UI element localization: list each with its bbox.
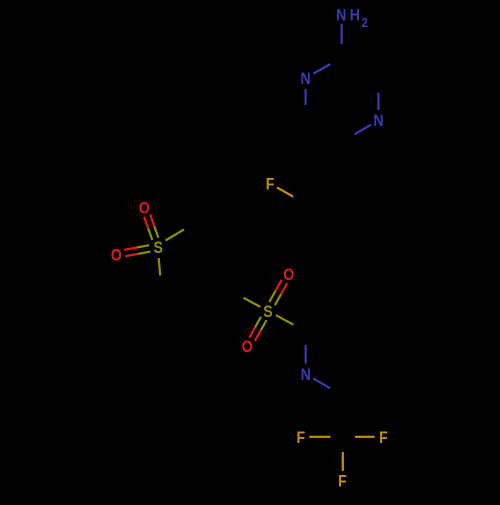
svg-text:F: F — [266, 176, 275, 194]
svg-text:N: N — [301, 366, 311, 384]
bond S1 down to methyl (olive half) — [159, 258, 161, 276]
bond CH2-N3 (blue half) — [305, 345, 307, 364]
svg-text:N: N — [373, 112, 383, 130]
svg-text:N: N — [336, 7, 346, 25]
svg-text:F: F — [379, 429, 388, 447]
svg-text:F: F — [338, 473, 347, 491]
bond C-F left (gold half) — [309, 436, 330, 438]
svg-text:H: H — [350, 7, 360, 25]
bond F-phenyl (gold half) — [277, 187, 293, 196]
svg-text:S: S — [263, 303, 272, 321]
svg-text:O: O — [139, 200, 150, 218]
S2=O lower double bond line left — [249, 317, 261, 338]
S2=O upper double bond line right — [275, 283, 287, 305]
bond C2-N1 (blue half) — [313, 64, 330, 74]
bond N4-C5 (blue half) — [355, 125, 372, 135]
bond C3-N4 (blue half) — [377, 93, 379, 111]
S2=O lower double bond line right — [255, 320, 267, 341]
S1=O top double bond line right — [150, 215, 158, 238]
S1=O left double bond lower line — [125, 252, 150, 257]
bond N3-C (blue half) — [313, 378, 330, 388]
bond S1 up-right to chain (olive half) — [166, 229, 185, 240]
amine NH2 label — [336, 7, 368, 31]
svg-text:O: O — [242, 338, 253, 356]
svg-text:2: 2 — [362, 17, 368, 31]
svg-text:O: O — [283, 266, 294, 284]
svg-text:O: O — [111, 247, 122, 265]
S1=O left double bond upper line — [124, 245, 149, 250]
svg-text:N: N — [301, 70, 311, 88]
S1=O top double bond line left — [144, 217, 152, 240]
svg-text:S: S — [154, 239, 163, 257]
bond N1-C6 (blue half) — [305, 89, 307, 105]
bond S2 up-left to chain (olive half) — [244, 298, 261, 307]
S2=O upper double bond line left — [269, 280, 281, 302]
bond NH2 to C2 (blue half) — [341, 24, 343, 44]
bond C-F right (gold half) — [355, 436, 375, 438]
bond S2 down-right to CH2 (olive half) — [276, 315, 294, 325]
bond C-F bottom (gold half) — [342, 452, 344, 471]
svg-text:F: F — [296, 429, 305, 447]
